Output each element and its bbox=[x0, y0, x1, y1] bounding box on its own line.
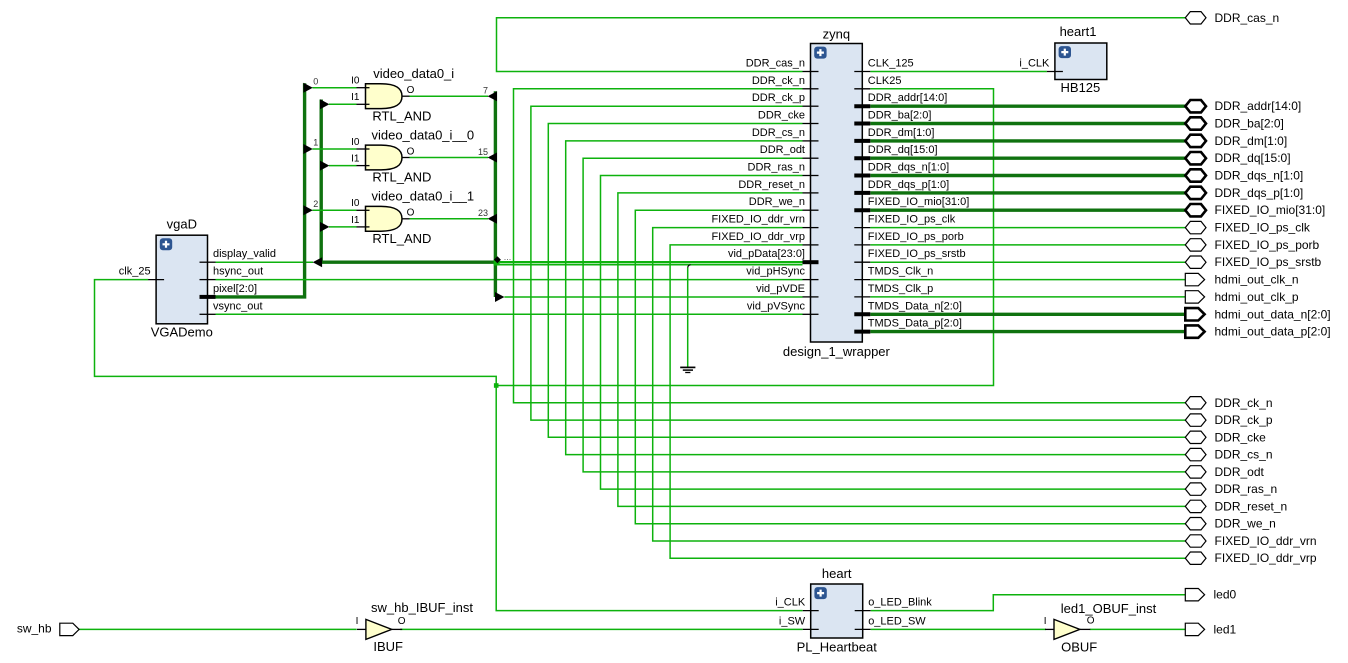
port DDR_reset_n bbox=[1185, 500, 1206, 512]
svg-text:vid_pData[23:0]: vid_pData[23:0] bbox=[728, 248, 805, 260]
AND gate video_data0_i (RTL_AND) bbox=[366, 84, 403, 109]
svg-text:RTL_AND: RTL_AND bbox=[372, 108, 431, 123]
svg-text:led1_OBUF_inst: led1_OBUF_inst bbox=[1061, 601, 1157, 616]
svg-text:design_1_wrapper: design_1_wrapper bbox=[783, 344, 891, 359]
svg-text:DDR_we_n: DDR_we_n bbox=[1215, 517, 1276, 531]
svg-text:video_data0_i: video_data0_i bbox=[373, 66, 454, 81]
svg-text:FIXED_IO_ddr_vrp: FIXED_IO_ddr_vrp bbox=[711, 231, 805, 243]
wire pixel[1] tap to gate I0 bbox=[312, 148, 356, 150]
zynq right pin stubs bbox=[854, 71, 870, 73]
AND gate video_data0_i__0 (RTL_AND) bbox=[366, 145, 403, 170]
wire net FIXED_IO_ps_srstb (zynq right pin to port) bbox=[870, 261, 1185, 263]
svg-text:DDR_dqs_n[1:0]: DDR_dqs_n[1:0] bbox=[1215, 169, 1304, 183]
svg-text:2: 2 bbox=[313, 199, 318, 209]
port DDR_cke bbox=[1185, 431, 1206, 443]
wire net DDR_ck_n (zynq left pin via staircase to port) bbox=[514, 89, 1186, 403]
junction CLK25 net bbox=[494, 383, 499, 388]
svg-text:DDR_ck_p: DDR_ck_p bbox=[752, 92, 805, 104]
port FIXED_IO_ddr_vrp bbox=[1185, 552, 1206, 564]
wire net DDR_dm[1:0] (zynq right pin to port) bbox=[870, 139, 1185, 142]
ground symbol GND bbox=[680, 366, 695, 368]
wire net CLK_125 (zynq to heart1 i_CLK) bbox=[870, 71, 1047, 73]
svg-text:DDR_dm[1:0]: DDR_dm[1:0] bbox=[1215, 134, 1288, 148]
port hdmi_out_data_n[2:0] bbox=[1185, 308, 1204, 320]
svg-text:FIXED_IO_ddr_vrn: FIXED_IO_ddr_vrn bbox=[711, 214, 805, 226]
svg-text:DDR_cke: DDR_cke bbox=[1215, 430, 1267, 444]
svg-text:DDR_reset_n: DDR_reset_n bbox=[738, 179, 805, 191]
wire net sw_hb (port to IBUF) bbox=[78, 628, 357, 630]
port DDR_ck_p bbox=[1185, 414, 1206, 426]
svg-text:I0: I0 bbox=[351, 76, 360, 87]
svg-text:vid_pVSync: vid_pVSync bbox=[747, 300, 806, 312]
wire net DDR_dqs_p[1:0] (zynq right pin to port) bbox=[870, 191, 1185, 194]
arrow + wire vid_pVDE tap from right bus bbox=[495, 292, 504, 302]
port sw_hb (input, bottom left) bbox=[60, 623, 79, 635]
svg-text:vgaD: vgaD bbox=[167, 216, 197, 231]
port DDR_addr[14:0] bbox=[1185, 100, 1206, 112]
svg-text:display_valid: display_valid bbox=[213, 248, 276, 260]
svg-text:hdmi_out_clk_n: hdmi_out_clk_n bbox=[1215, 273, 1299, 287]
wire net sw_hb_IBUF (IBUF to heart i_SW) bbox=[400, 628, 802, 630]
svg-text:OBUF: OBUF bbox=[1061, 639, 1097, 654]
svg-text:DDR_ck_n: DDR_ck_n bbox=[1215, 396, 1273, 410]
svg-text:I0: I0 bbox=[351, 137, 360, 148]
wire net DDR_cas_n (zynq left pin to top-right port) bbox=[497, 18, 1186, 72]
port DDR_cs_n bbox=[1185, 448, 1206, 460]
wire net DDR_dqs_n[1:0] (zynq right pin to port) bbox=[870, 174, 1185, 177]
svg-text:clk_25: clk_25 bbox=[119, 266, 151, 278]
svg-text:I1: I1 bbox=[351, 215, 360, 226]
svg-text:CLK_125: CLK_125 bbox=[868, 58, 914, 70]
svg-text:vsync_out: vsync_out bbox=[213, 300, 263, 312]
svg-text:hdmi_out_data_n[2:0]: hdmi_out_data_n[2:0] bbox=[1215, 307, 1331, 321]
wire net vsync_out to vid_pVSync bbox=[216, 313, 803, 315]
wire net o_LED_Blink (heart to led0 port) bbox=[871, 595, 1186, 611]
svg-text:DDR_dm[1:0]: DDR_dm[1:0] bbox=[868, 127, 935, 139]
svg-text:FIXED_IO_ddr_vrn: FIXED_IO_ddr_vrn bbox=[1215, 534, 1317, 548]
svg-text:DDR_odt: DDR_odt bbox=[760, 144, 805, 156]
svg-text:DDR_addr[14:0]: DDR_addr[14:0] bbox=[868, 92, 948, 104]
svg-text:DDR_addr[14:0]: DDR_addr[14:0] bbox=[1215, 99, 1302, 113]
port hdmi_out_data_p[2:0] bbox=[1185, 325, 1204, 337]
junction vid_pData bus (green square + black diamond) bbox=[494, 260, 500, 266]
svg-text:DDR_ck_p: DDR_ck_p bbox=[1215, 413, 1273, 427]
port hdmi_out_clk_p bbox=[1185, 291, 1204, 303]
port FIXED_IO_ps_clk bbox=[1185, 221, 1206, 233]
wire display_valid tap to gate I1 bbox=[329, 165, 357, 167]
svg-text:led1: led1 bbox=[1214, 622, 1237, 636]
wire gate output bit to vid_pData bus bbox=[410, 218, 489, 220]
svg-text:sw_hb: sw_hb bbox=[17, 622, 52, 636]
svg-text:FIXED_IO_ps_srstb: FIXED_IO_ps_srstb bbox=[868, 248, 966, 260]
wire net DDR_ras_n (zynq left pin via staircase to port) bbox=[601, 176, 1186, 490]
svg-text:vid_pHSync: vid_pHSync bbox=[746, 266, 805, 278]
wire net CLK25 (zynq CLK25 down/left to vgaD clk_25 and heart i_CLK) bbox=[496, 89, 993, 386]
svg-text:video_data0_i__0: video_data0_i__0 bbox=[371, 127, 474, 142]
svg-text:CLK25: CLK25 bbox=[868, 75, 902, 87]
svg-text:DDR_ba[2:0]: DDR_ba[2:0] bbox=[868, 110, 932, 122]
svg-text:O: O bbox=[407, 146, 415, 157]
svg-text:23: 23 bbox=[478, 208, 488, 218]
svg-text:DDR_ba[2:0]: DDR_ba[2:0] bbox=[1215, 117, 1284, 131]
port DDR_dqs_p[1:0] bbox=[1185, 187, 1206, 199]
wire bus pixel[2:0] vertical distribution (bus1) bbox=[216, 83, 305, 297]
wire net hdmi_out_data_n[2:0] (zynq right pin to port) bbox=[870, 313, 1185, 316]
vgaD pin stubs bbox=[148, 279, 164, 281]
port DDR_dqs_n[1:0] bbox=[1185, 169, 1206, 181]
wire net hdmi_out_clk_n (zynq right pin to port) bbox=[870, 279, 1185, 281]
svg-text:heart1: heart1 bbox=[1060, 24, 1097, 39]
svg-text:O: O bbox=[1087, 615, 1095, 626]
wire net hsync_out to vid_pHSync bbox=[216, 279, 803, 281]
svg-text:FIXED_IO_mio[31:0]: FIXED_IO_mio[31:0] bbox=[868, 196, 970, 208]
svg-text:VGADemo: VGADemo bbox=[151, 324, 213, 339]
svg-text:DDR_dq[15:0]: DDR_dq[15:0] bbox=[868, 144, 938, 156]
svg-text:i_CLK: i_CLK bbox=[775, 597, 806, 609]
buffer IBUF sw_hb_IBUF_inst bbox=[366, 619, 392, 639]
svg-text:I: I bbox=[1044, 616, 1047, 627]
svg-text:video_data0_i__1: video_data0_i__1 bbox=[371, 189, 474, 204]
svg-text:o_LED_Blink: o_LED_Blink bbox=[868, 597, 932, 609]
wire net DDR_odt (zynq left pin via staircase to port) bbox=[583, 158, 1185, 472]
port hdmi_out_clk_n bbox=[1185, 273, 1204, 285]
wire net led1_OBUF (OBUF to led1 port) bbox=[1090, 628, 1186, 630]
wire pixel[0] tap to gate I0 bbox=[312, 87, 356, 89]
svg-text:sw_hb_IBUF_inst: sw_hb_IBUF_inst bbox=[371, 600, 473, 615]
svg-text:TMDS_Clk_n: TMDS_Clk_n bbox=[868, 266, 933, 278]
module zynq (design_1_wrapper block) bbox=[811, 44, 863, 343]
wire display_valid tap to gate I1 bbox=[329, 103, 357, 105]
svg-text:RTL_AND: RTL_AND bbox=[372, 231, 431, 246]
svg-text:DDR_cs_n: DDR_cs_n bbox=[752, 127, 805, 139]
svg-text:IBUF: IBUF bbox=[373, 639, 403, 654]
port DDR_ba[2:0] bbox=[1185, 117, 1206, 129]
svg-text:hdmi_out_data_p[2:0]: hdmi_out_data_p[2:0] bbox=[1215, 325, 1331, 339]
svg-text:DDR_dqs_n[1:0]: DDR_dqs_n[1:0] bbox=[868, 162, 949, 174]
svg-text:hsync_out: hsync_out bbox=[213, 266, 263, 278]
svg-text:FIXED_IO_ps_porb: FIXED_IO_ps_porb bbox=[868, 231, 964, 243]
module heart (PL_Heartbeat block) bbox=[811, 584, 863, 638]
svg-text:RTL_AND: RTL_AND bbox=[372, 170, 431, 185]
svg-text:DDR_dqs_p[1:0]: DDR_dqs_p[1:0] bbox=[868, 179, 949, 191]
wire GND companion thin wire along vid_pData bbox=[497, 264, 803, 266]
svg-text:FIXED_IO_ddr_vrp: FIXED_IO_ddr_vrp bbox=[1215, 551, 1317, 565]
svg-text:hdmi_out_clk_p: hdmi_out_clk_p bbox=[1215, 290, 1299, 304]
svg-text:FIXED_IO_mio[31:0]: FIXED_IO_mio[31:0] bbox=[1215, 203, 1326, 217]
wire bus vid_pData vertical (bus2) and thick run to zynq vid_pData pin bbox=[321, 100, 495, 263]
svg-text:15: 15 bbox=[478, 147, 488, 157]
arrow display_valid into bus2 elbow bbox=[313, 257, 322, 267]
svg-text:PL_Heartbeat: PL_Heartbeat bbox=[797, 639, 878, 654]
svg-text:TMDS_Clk_p: TMDS_Clk_p bbox=[868, 283, 933, 295]
svg-text:FIXED_IO_ps_clk: FIXED_IO_ps_clk bbox=[868, 214, 956, 226]
svg-text:DDR_dqs_p[1:0]: DDR_dqs_p[1:0] bbox=[1215, 186, 1304, 200]
svg-text:DDR_reset_n: DDR_reset_n bbox=[1215, 499, 1288, 513]
svg-text:FIXED_IO_ps_clk: FIXED_IO_ps_clk bbox=[1215, 221, 1311, 235]
svg-text:DDR_ras_n: DDR_ras_n bbox=[748, 162, 805, 174]
port DDR_odt bbox=[1185, 466, 1206, 478]
port DDR_dm[1:0] bbox=[1185, 135, 1206, 147]
wire net DDR_addr[14:0] (zynq right pin to port) bbox=[870, 104, 1185, 107]
wire net DDR_we_n (zynq left pin via staircase to port) bbox=[635, 210, 1185, 524]
svg-text:DDR_we_n: DDR_we_n bbox=[749, 196, 805, 208]
svg-text:O: O bbox=[407, 208, 415, 219]
zynq left pin stubs bbox=[803, 71, 819, 73]
port DDR_cas_n (top right) bbox=[1185, 12, 1206, 24]
wire gate output bit to vid_pData bus bbox=[410, 157, 489, 159]
svg-text:zynq: zynq bbox=[823, 26, 850, 41]
svg-text:DDR_ck_n: DDR_ck_n bbox=[752, 75, 805, 87]
wire net o_LED_SW (heart to OBUF) bbox=[871, 628, 1046, 630]
svg-text:i_SW: i_SW bbox=[779, 615, 806, 627]
svg-text:TMDS_Data_n[2:0]: TMDS_Data_n[2:0] bbox=[868, 300, 962, 312]
wire net DDR_ck_p (zynq left pin via staircase to port) bbox=[531, 106, 1185, 420]
heart1 pin stub i_CLK bbox=[1047, 71, 1063, 73]
svg-text:I1: I1 bbox=[351, 154, 360, 165]
svg-text:DDR_cs_n: DDR_cs_n bbox=[1215, 448, 1273, 462]
wire gate output bit to vid_pData bus bbox=[410, 95, 489, 97]
wire bus gate-output collection (right bus x=495) bbox=[494, 91, 497, 297]
wire net FIXED_IO_ps_clk (zynq right pin to port) bbox=[870, 227, 1185, 229]
AND gate video_data0_i__1 (RTL_AND) bbox=[366, 206, 403, 231]
svg-text:DDR_cas_n: DDR_cas_n bbox=[1215, 11, 1280, 25]
wire net DDR_ba[2:0] (zynq right pin to port) bbox=[870, 122, 1185, 125]
svg-text:...: ... bbox=[504, 252, 512, 262]
wire net FIXED_IO_mio[31:0] (zynq right pin to port) bbox=[870, 208, 1185, 211]
svg-text:DDR_cke: DDR_cke bbox=[758, 110, 805, 122]
svg-text:FIXED_IO_ps_porb: FIXED_IO_ps_porb bbox=[1215, 238, 1320, 252]
svg-text:0: 0 bbox=[313, 76, 318, 86]
svg-text:DDR_cas_n: DDR_cas_n bbox=[746, 58, 805, 70]
wire net hdmi_out_clk_p (zynq right pin to port) bbox=[870, 296, 1185, 298]
wire net DDR_cke (zynq left pin via staircase to port) bbox=[548, 124, 1185, 438]
wire net DDR_dq[15:0] (zynq right pin to port) bbox=[870, 156, 1185, 159]
svg-text:vid_pVDE: vid_pVDE bbox=[756, 283, 805, 295]
port led1 bbox=[1185, 623, 1204, 635]
port FIXED_IO_ddr_vrn bbox=[1185, 535, 1206, 547]
svg-text:1: 1 bbox=[313, 138, 318, 148]
wire net FIXED_IO_ddr_vrp (zynq left pin via staircase to port) bbox=[670, 245, 1185, 558]
wire net FIXED_IO_ddr_vrn (zynq left pin via staircase to port) bbox=[653, 228, 1186, 541]
wire net DDR_reset_n (zynq left pin via staircase to port) bbox=[618, 193, 1185, 507]
svg-text:O: O bbox=[398, 616, 406, 627]
svg-text:i_CLK: i_CLK bbox=[1019, 58, 1050, 70]
wire net FIXED_IO_ps_porb (zynq right pin to port) bbox=[870, 244, 1185, 246]
svg-text:TMDS_Data_p[2:0]: TMDS_Data_p[2:0] bbox=[868, 318, 962, 330]
wire net display_valid (vgaD to bus tap arrow) bbox=[216, 261, 314, 263]
buffer OBUF led1_OBUF_inst bbox=[1054, 619, 1080, 639]
svg-text:HB125: HB125 bbox=[1061, 80, 1101, 95]
wire display_valid tap to gate I1 bbox=[329, 226, 357, 228]
module vgaD (VGADemo block) bbox=[156, 235, 207, 324]
svg-text:pixel[2:0]: pixel[2:0] bbox=[213, 283, 257, 295]
svg-text:7: 7 bbox=[483, 86, 488, 96]
module heart1 (HB125 block) bbox=[1055, 43, 1107, 80]
port DDR_dq[15:0] bbox=[1185, 152, 1206, 164]
port FIXED_IO_mio[31:0] bbox=[1185, 204, 1206, 216]
wire GND vertical with curved tap bbox=[688, 265, 691, 268]
svg-text:DDR_odt: DDR_odt bbox=[1215, 465, 1265, 479]
svg-text:I0: I0 bbox=[351, 198, 360, 209]
svg-text:DDR_ras_n: DDR_ras_n bbox=[1215, 482, 1278, 496]
heart pin stubs bbox=[803, 610, 819, 612]
port DDR_ras_n bbox=[1185, 483, 1206, 495]
svg-text:led0: led0 bbox=[1214, 588, 1237, 602]
svg-text:heart: heart bbox=[822, 566, 852, 581]
port led0 bbox=[1185, 589, 1204, 601]
svg-text:DDR_dq[15:0]: DDR_dq[15:0] bbox=[1215, 151, 1291, 165]
svg-text:O: O bbox=[407, 85, 415, 96]
wire bus vid_pData bright segment to zynq bbox=[495, 261, 802, 263]
svg-text:I1: I1 bbox=[351, 92, 360, 103]
wire pixel[2] tap to gate I0 bbox=[312, 209, 356, 211]
svg-text:I: I bbox=[356, 616, 359, 627]
svg-text:o_LED_SW: o_LED_SW bbox=[868, 615, 926, 627]
port DDR_ck_n bbox=[1185, 397, 1206, 409]
svg-text:FIXED_IO_ps_srstb: FIXED_IO_ps_srstb bbox=[1215, 255, 1322, 269]
wire net DDR_cs_n (zynq left pin via staircase to port) bbox=[566, 141, 1186, 455]
port FIXED_IO_ps_srstb bbox=[1185, 256, 1206, 268]
port FIXED_IO_ps_porb bbox=[1185, 239, 1206, 251]
port DDR_we_n bbox=[1185, 518, 1206, 530]
wire net hdmi_out_data_p[2:0] (zynq right pin to port) bbox=[870, 330, 1185, 333]
